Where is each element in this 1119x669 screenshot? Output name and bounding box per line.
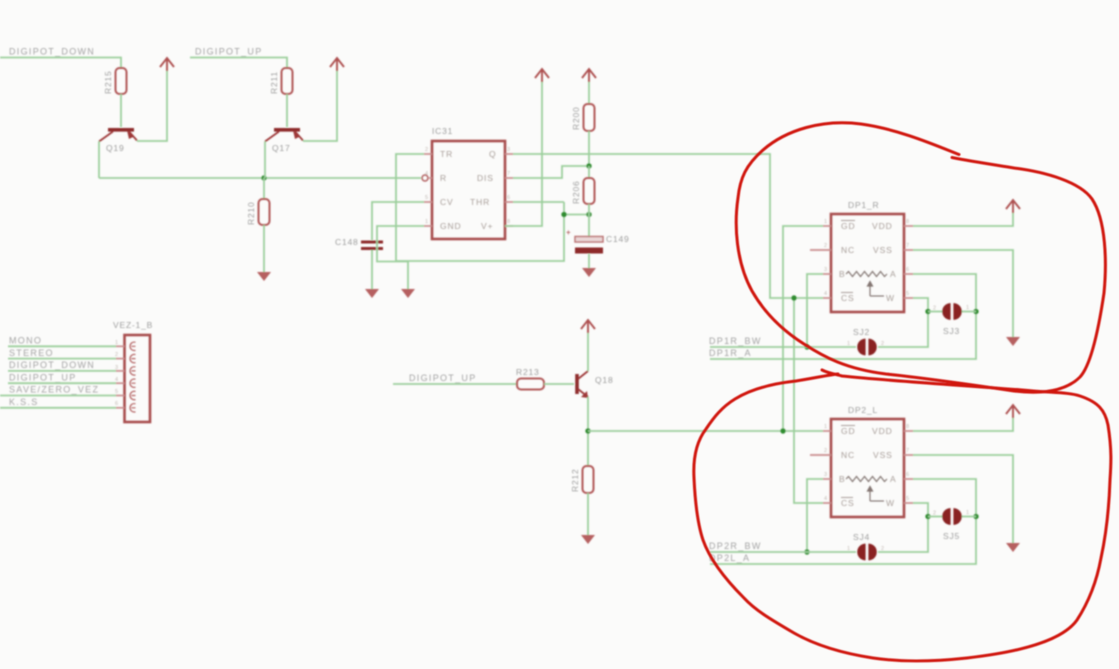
pin numbers DP1 [824, 219, 909, 297]
svg-text:1: 1 [115, 340, 118, 346]
wire V+ [505, 81, 542, 226]
wire [0, 395, 116, 397]
svg-text:DIGIPOT_UP: DIGIPOT_UP [409, 373, 477, 383]
supply VCC arrow 1 [160, 58, 174, 71]
svg-text:6: 6 [115, 401, 118, 407]
annotation red freehand circle around DP1_R [736, 123, 1105, 392]
solder jumper SJ2 [847, 327, 884, 355]
pin numbers IC31 [425, 147, 510, 225]
svg-text:NC: NC [841, 450, 855, 460]
svg-text:C148: C148 [335, 237, 359, 247]
svg-text:5: 5 [425, 195, 428, 201]
annotation red freehand circle around DP2_L [694, 370, 1111, 661]
svg-text:Q: Q [489, 149, 497, 159]
svg-text:R206: R206 [571, 180, 581, 204]
svg-text:6: 6 [507, 195, 510, 201]
svg-text:SJ2: SJ2 [853, 327, 870, 337]
svg-text:1: 1 [847, 341, 850, 347]
svg-text:W: W [886, 293, 895, 303]
wire VSS2 [913, 455, 1013, 543]
svg-text:C149: C149 [606, 234, 630, 244]
svg-text:5: 5 [906, 496, 909, 502]
wire THR junction to C149 column [564, 214, 590, 216]
svg-text:1: 1 [824, 424, 827, 430]
supply VCC arrow 3 [535, 69, 549, 82]
wire [286, 94, 288, 127]
wire A2 [710, 479, 976, 564]
pin 4 inversion bubble [422, 175, 428, 181]
potentiometer wiper symbol DP2 [846, 477, 887, 502]
svg-text:8: 8 [906, 424, 909, 430]
svg-text:4: 4 [824, 496, 827, 502]
svg-text:DP1R_A: DP1R_A [709, 348, 752, 358]
solder jumper SJ3 [933, 303, 969, 336]
svg-text:R211: R211 [269, 71, 279, 94]
svg-text:DP1_R: DP1_R [848, 200, 879, 210]
pin stubs IC31 left [424, 154, 432, 226]
solder jumper SJ5 [933, 508, 969, 541]
ground [581, 535, 595, 544]
svg-text:Q17: Q17 [272, 143, 290, 153]
supply VCC arrow 4 [582, 69, 596, 82]
wire VSS1 [913, 250, 1013, 337]
wire SJ5 row [928, 516, 943, 518]
wire SJ4 right to W2 column [878, 517, 928, 553]
svg-text:1: 1 [966, 510, 969, 516]
wire DIS [513, 166, 589, 178]
overlines GD CS DP2 [841, 425, 855, 427]
svg-text:8: 8 [507, 219, 510, 225]
pin names IC31 [440, 149, 497, 231]
svg-text:VSS: VSS [873, 450, 893, 460]
ground [401, 289, 415, 298]
svg-text:IC31: IC31 [432, 126, 453, 136]
wire [588, 254, 590, 268]
wire TR loop [396, 154, 564, 261]
wire bus to R pin [99, 177, 421, 179]
wire [120, 94, 122, 127]
svg-text:4: 4 [425, 171, 428, 177]
node [561, 212, 566, 217]
wire [303, 71, 337, 141]
solder jumper SJ4 [847, 532, 884, 560]
wire B1 [807, 274, 823, 347]
svg-text:SAVE/ZERO_VEZ: SAVE/ZERO_VEZ [9, 385, 99, 395]
wire [8, 382, 116, 384]
wire [190, 58, 287, 69]
svg-text:K.S.S: K.S.S [9, 397, 39, 407]
svg-text:B: B [839, 269, 846, 279]
svg-text:DIGIPOT_UP: DIGIPOT_UP [195, 47, 263, 57]
ground [1006, 543, 1020, 552]
svg-text:4: 4 [115, 377, 118, 383]
svg-text:THR: THR [470, 197, 490, 207]
transistor Q17 [265, 130, 303, 153]
wire [587, 493, 589, 535]
svg-text:5: 5 [906, 291, 909, 297]
node [586, 163, 591, 168]
svg-text:DIGIPOT_DOWN: DIGIPOT_DOWN [9, 47, 95, 57]
svg-text:7: 7 [906, 448, 909, 454]
svg-text:R213: R213 [516, 367, 540, 377]
svg-text:VSS: VSS [873, 245, 893, 255]
supply VCC arrow 6 [1006, 200, 1020, 213]
node [791, 295, 796, 300]
svg-text:A: A [890, 474, 897, 484]
wire [263, 178, 265, 199]
svg-text:R215: R215 [103, 70, 113, 94]
svg-text:6: 6 [906, 472, 909, 478]
wire [393, 383, 517, 385]
svg-text:DIGIPOT_UP: DIGIPOT_UP [9, 372, 77, 382]
svg-text:3: 3 [824, 267, 827, 273]
wire B2 [807, 479, 823, 552]
node [925, 514, 930, 519]
node [804, 344, 809, 349]
svg-text:NC: NC [841, 245, 855, 255]
pin stubs DP1 left [810, 226, 831, 298]
svg-text:R200: R200 [571, 106, 581, 130]
svg-text:R212: R212 [570, 468, 580, 492]
pin stubs IC31 right [505, 154, 513, 226]
wire Q output [513, 154, 823, 298]
ground [365, 289, 379, 298]
svg-text:+: + [566, 228, 571, 237]
wire [588, 131, 590, 166]
wire VDD1 [913, 213, 1013, 226]
wire [0, 58, 121, 69]
wire [8, 345, 116, 347]
svg-text:VEZ-1_B: VEZ-1_B [113, 320, 153, 330]
supply VCC arrow 5 [581, 320, 595, 333]
svg-text:2: 2 [933, 511, 936, 517]
resistor R200 [584, 104, 595, 131]
wire [264, 142, 266, 179]
wire [8, 370, 116, 372]
svg-text:R210: R210 [246, 201, 256, 225]
pin names DP2_L [839, 426, 897, 508]
wire [710, 551, 856, 553]
svg-text:1: 1 [824, 219, 827, 225]
svg-text:3: 3 [507, 147, 510, 153]
node junction Q17/Q19 bus [261, 175, 266, 180]
ground [582, 268, 596, 277]
wire [0, 407, 116, 409]
pin stubs DP1 right [904, 226, 913, 298]
svg-text:B: B [839, 474, 846, 484]
svg-text:1: 1 [425, 219, 428, 225]
svg-text:DIGIPOT_DOWN: DIGIPOT_DOWN [9, 360, 95, 370]
wire GD1 down to Q18 node [783, 226, 823, 431]
svg-text:2: 2 [824, 448, 827, 454]
svg-text:7: 7 [507, 171, 510, 177]
wire [137, 71, 167, 141]
pin stubs of VEZ-1_B [116, 346, 125, 408]
wire VDD2 [913, 418, 1013, 431]
pin stubs DP2 right [904, 431, 913, 503]
wire to DP2 GD [588, 430, 823, 432]
svg-text:TR: TR [440, 149, 453, 159]
pin contacts of VEZ-1_B [130, 342, 135, 412]
capacitor C148 [335, 237, 383, 249]
svg-text:7: 7 [906, 243, 909, 249]
svg-text:SJ5: SJ5 [943, 531, 960, 541]
svg-text:DP2_L: DP2_L [848, 405, 878, 415]
wire THR [513, 201, 564, 203]
svg-text:SJ3: SJ3 [943, 326, 960, 336]
potentiometer wiper symbol DP1 [846, 272, 887, 297]
pin numbers of VEZ-1_B [115, 340, 118, 407]
node [780, 428, 785, 433]
pin stubs DP2 left [810, 431, 831, 503]
node [973, 514, 978, 519]
resistor R213 [517, 379, 544, 390]
svg-text:W: W [886, 498, 895, 508]
overlines GD CS [841, 220, 855, 222]
svg-text:CS: CS [841, 498, 855, 508]
svg-text:2: 2 [115, 352, 118, 358]
svg-text:DIS: DIS [477, 173, 494, 183]
svg-text:Q19: Q19 [106, 143, 124, 153]
wire [544, 383, 574, 385]
svg-text:2: 2 [425, 147, 428, 153]
svg-text:VDD: VDD [872, 221, 893, 231]
svg-text:MONO: MONO [9, 336, 42, 346]
svg-text:A: A [890, 269, 897, 279]
wire CS1 branch to CS2 [794, 298, 823, 503]
svg-text:GD: GD [841, 426, 856, 436]
wire GND pin [377, 226, 424, 289]
svg-text:CS: CS [841, 293, 855, 303]
capacitor C149 polarized [566, 228, 630, 254]
resistor R212 [583, 466, 594, 493]
transistor Q19 [99, 130, 137, 153]
svg-text:2: 2 [933, 306, 936, 312]
node [925, 309, 930, 314]
svg-text:V+: V+ [481, 221, 493, 231]
svg-text:Q18: Q18 [595, 375, 613, 385]
wire W1 [913, 298, 928, 312]
node [586, 212, 591, 217]
wire collector [587, 333, 589, 371]
wire [263, 225, 265, 272]
wire [588, 204, 590, 236]
svg-text:DP1R_BW: DP1R_BW [709, 336, 762, 346]
node [804, 549, 809, 554]
wire CV [372, 202, 424, 240]
node [973, 309, 978, 314]
svg-text:SJ4: SJ4 [853, 532, 870, 542]
wire SJ2 right to W column [878, 312, 928, 348]
wire [98, 142, 100, 179]
wire [8, 358, 116, 360]
ground [257, 272, 271, 281]
op-amp/timer IC31 body [432, 126, 505, 239]
resistor R210 [259, 199, 270, 225]
wire [710, 346, 856, 348]
transistor Q18 [577, 371, 613, 398]
resistor R206 [588, 166, 590, 178]
svg-text:3: 3 [824, 472, 827, 478]
resistor R211 [282, 68, 293, 94]
svg-text:8: 8 [906, 219, 909, 225]
svg-text:STEREO: STEREO [9, 348, 54, 358]
wire A1 [710, 274, 976, 359]
svg-text:GND: GND [440, 221, 462, 231]
node [585, 428, 590, 433]
svg-text:4: 4 [824, 291, 827, 297]
wire [588, 82, 590, 104]
ground [1006, 337, 1020, 346]
supply VCC arrow 2 [330, 58, 344, 71]
svg-text:R: R [440, 173, 447, 183]
svg-text:5: 5 [115, 389, 118, 395]
supply VCC arrow 7 [1006, 405, 1020, 418]
svg-text:VDD: VDD [872, 426, 893, 436]
svg-text:DP2R_BW: DP2R_BW [709, 541, 762, 551]
connector VEZ-1_B [113, 320, 153, 422]
pin names DP1_R [839, 221, 897, 303]
svg-text:GD: GD [841, 221, 856, 231]
resistor R215 [116, 68, 127, 94]
wire SJ3 row [928, 311, 943, 313]
svg-text:6: 6 [906, 267, 909, 273]
svg-text:CV: CV [440, 197, 454, 207]
svg-text:2: 2 [824, 243, 827, 249]
DIGITAL POT DP1_R [831, 200, 904, 312]
wire W2 [913, 503, 928, 517]
svg-text:1: 1 [847, 546, 850, 552]
wire emitter node [587, 397, 589, 466]
pin numbers DP2 [824, 424, 909, 502]
svg-text:1: 1 [966, 305, 969, 311]
wire [371, 250, 373, 289]
